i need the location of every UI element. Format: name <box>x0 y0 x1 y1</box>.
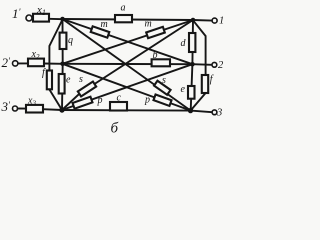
svg-text:x1: x1 <box>36 4 46 17</box>
svg-text:x2: x2 <box>31 49 40 61</box>
svg-text:3': 3' <box>1 99 12 114</box>
svg-text:f: f <box>42 68 46 79</box>
svg-text:x3: x3 <box>27 96 36 108</box>
svg-text:c: c <box>117 93 122 104</box>
svg-text:s: s <box>162 75 166 86</box>
svg-text:m: m <box>101 19 108 30</box>
svg-text:e: e <box>181 84 186 95</box>
svg-text:2: 2 <box>218 60 224 71</box>
svg-text:e: e <box>66 75 71 86</box>
svg-text:p: p <box>144 95 150 106</box>
svg-text:a: a <box>121 3 126 14</box>
svg-text:1': 1' <box>12 6 22 21</box>
svg-text:d: d <box>181 38 187 49</box>
svg-text:б: б <box>111 121 119 137</box>
svg-text:b: b <box>153 50 158 61</box>
svg-text:q: q <box>68 35 73 46</box>
svg-text:m: m <box>145 19 152 30</box>
svg-text:1: 1 <box>219 16 224 27</box>
svg-text:s: s <box>79 74 83 85</box>
svg-text:f: f <box>210 74 214 85</box>
svg-text:p: p <box>97 95 103 106</box>
svg-text:3: 3 <box>216 108 222 119</box>
svg-text:2': 2' <box>2 55 12 70</box>
